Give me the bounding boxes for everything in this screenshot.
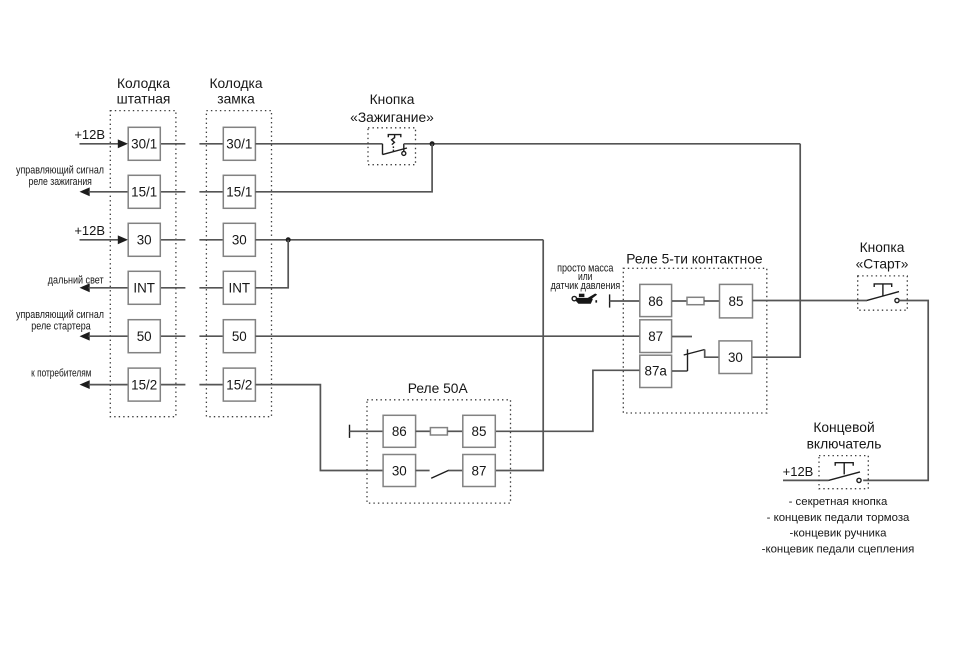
- svg-text:15/1: 15/1: [226, 185, 252, 200]
- +12V feed arrow into 30/1: [80, 139, 129, 148]
- svg-text:87а: 87а: [645, 364, 668, 379]
- relay K2 Реле 50А dashed outline: [367, 400, 511, 503]
- relay K1 Реле 5-ти контактное dashed outline: [623, 268, 767, 413]
- svg-text:87: 87: [648, 329, 663, 344]
- wire start button to end switch: [863, 301, 928, 481]
- wire +12V feed to end switch: [783, 479, 828, 481]
- pin box 86 of K2: [383, 415, 416, 447]
- svg-text:включатель: включатель: [807, 437, 882, 452]
- svg-text:85: 85: [729, 294, 744, 309]
- output arrow from 15/1: [80, 187, 129, 196]
- svg-text:Колодка: Колодка: [117, 76, 170, 91]
- pin box 30/1 lock: [223, 127, 255, 160]
- wire 50 stock to 50 lock: [160, 335, 223, 337]
- svg-text:штатная: штатная: [117, 92, 171, 107]
- connector block Колодка замка dashed outline: [206, 111, 271, 417]
- svg-text:50: 50: [137, 329, 152, 344]
- svg-text:30: 30: [137, 233, 152, 248]
- wire terminal bar to pin 86 of K1: [610, 300, 640, 302]
- pin box 85 of K2: [463, 415, 496, 447]
- start button SB2 contacts: [867, 284, 899, 303]
- output arrow from INT: [80, 283, 129, 292]
- svg-text:15/2: 15/2: [226, 377, 252, 392]
- pin box 50 lock: [223, 320, 255, 353]
- svg-text:30: 30: [392, 463, 407, 478]
- wire pin 85 of Реле 50А up to pin 87a of K1: [495, 370, 639, 431]
- svg-text:датчик давления: датчик давления: [551, 280, 621, 292]
- svg-text:Реле 5-ти контактное: Реле 5-ти контактное: [626, 252, 763, 267]
- open contact stub of pin 87 K1: [672, 336, 692, 338]
- svg-text:к потребителям: к потребителям: [31, 367, 91, 379]
- wire 50 lock to pin 87 of 5-pin relay: [255, 335, 639, 337]
- pin box INT lock: [223, 271, 255, 304]
- svg-text:30/1: 30/1: [131, 137, 157, 152]
- output arrow from 15/2: [80, 380, 129, 389]
- svg-text:-концевик педали сцепления: -концевик педали сцепления: [762, 543, 915, 555]
- output arrow from 50: [80, 332, 129, 341]
- svg-text:«Старт»: «Старт»: [856, 257, 909, 272]
- svg-text:30/1: 30/1: [226, 137, 252, 152]
- title Кнопка «Зажигание»: [350, 92, 434, 125]
- svg-text:15/2: 15/2: [131, 377, 157, 392]
- label просто масса или датчик давления: [551, 262, 621, 292]
- svg-text:30: 30: [232, 233, 247, 248]
- pin box 30/1 stock: [128, 127, 160, 160]
- svg-text:дальний свет: дальний свет: [48, 274, 104, 286]
- wire 15/2 lock to pin 30 of Реле 50А: [255, 385, 383, 471]
- pin box 30 lock: [223, 223, 255, 256]
- note list secret button variants: [762, 496, 915, 555]
- pin box 87a of K1: [640, 355, 672, 387]
- svg-text:Реле 50А: Реле 50А: [408, 381, 469, 396]
- ground terminal bar feeding pin 86 of K2: [349, 425, 351, 438]
- wire node B to INT lock: [255, 240, 288, 288]
- svg-text:INT: INT: [133, 281, 155, 296]
- svg-text:реле зажигания: реле зажигания: [29, 176, 92, 188]
- svg-text:+12В: +12В: [74, 223, 105, 238]
- wire terminal bar to pin 86 of K2: [350, 430, 384, 432]
- end switch SQ1 contacts: [828, 463, 861, 483]
- pin box 30 of K1: [719, 341, 752, 374]
- svg-text:-концевик ручника: -концевик ручника: [790, 528, 888, 540]
- +12V feed arrow into 30: [80, 235, 129, 244]
- svg-text:Концевой: Концевой: [813, 420, 874, 435]
- svg-text:«Зажигание»: «Зажигание»: [350, 110, 434, 125]
- svg-text:+12В: +12В: [783, 464, 814, 479]
- svg-text:Кнопка: Кнопка: [370, 92, 415, 107]
- relay K2 coil resistor: [416, 428, 463, 435]
- wire top bus down to pin 30 of 5-pin relay: [752, 144, 800, 357]
- svg-text:+12В: +12В: [74, 127, 105, 142]
- wire INT stock to INT lock: [160, 287, 223, 289]
- node A junction dot: [430, 141, 435, 146]
- pin box 87 of K2: [463, 455, 496, 487]
- pin box 50 stock: [128, 320, 160, 353]
- wire ignition button to node A and top bus: [404, 143, 800, 145]
- pin box 15/1 stock: [128, 175, 160, 208]
- title Колодка замка: [209, 76, 262, 107]
- pin box 86 of K1: [640, 284, 672, 316]
- svg-text:86: 86: [392, 424, 407, 439]
- svg-text:50: 50: [232, 329, 247, 344]
- svg-text:Колодка: Колодка: [209, 76, 262, 91]
- svg-text:86: 86: [648, 294, 663, 309]
- title Концевой включатель: [807, 420, 882, 452]
- svg-text:87: 87: [472, 463, 487, 478]
- wire 30 stock to 30 lock: [160, 239, 223, 241]
- pin box 30 stock: [128, 223, 160, 256]
- ignition button SB1 contacts: [383, 135, 408, 156]
- svg-text:Кнопка: Кнопка: [860, 240, 905, 255]
- wire 30 lock to vertical drop: [255, 239, 543, 241]
- wire node A down to 15/1 lock: [255, 144, 432, 192]
- label управляющий сигнал реле стартера: [16, 309, 104, 333]
- ground terminal bar feeding pin 86 of K1: [609, 294, 611, 307]
- svg-text:INT: INT: [229, 281, 251, 296]
- wire 30/1 lock to ignition button: [255, 143, 382, 145]
- pin box 87 of K1: [640, 320, 672, 353]
- wire 30/1 stock to 30/1 lock: [160, 143, 223, 145]
- push-button SB2 Кнопка Старт dashed outline: [858, 276, 908, 310]
- wire 30 bus drop to pin 87 of Реле 50А: [495, 240, 543, 471]
- svg-text:85: 85: [472, 424, 487, 439]
- svg-text:реле стартера: реле стартера: [31, 321, 91, 333]
- svg-text:управляющий сигнал: управляющий сигнал: [16, 309, 104, 321]
- svg-text:управляющий сигнал: управляющий сигнал: [16, 164, 104, 176]
- pin box 30 of K2: [383, 455, 416, 487]
- svg-text:замка: замка: [217, 92, 255, 107]
- pin box 85 of K1: [720, 284, 753, 318]
- relay K2 contact 30-87 (open): [416, 470, 463, 478]
- relay K1 coil resistor: [672, 297, 720, 304]
- svg-text:- секретная кнопка: - секретная кнопка: [789, 496, 888, 508]
- wire 15/1 stock to 15/1 lock: [160, 191, 223, 193]
- title Кнопка «Старт»: [856, 240, 909, 271]
- pin box 15/2 stock: [128, 368, 160, 401]
- relay K1 moving contact 87a-30: [672, 349, 719, 371]
- node B junction dot on 30 bus: [286, 237, 291, 242]
- oil pressure sensor icon: [572, 294, 597, 304]
- wire pin 85 of K1 to start button: [753, 300, 868, 302]
- svg-text:- концевик педали тормоза: - концевик педали тормоза: [767, 512, 910, 524]
- pin box 15/1 lock: [223, 175, 255, 208]
- connector block Колодка штатная dashed outline: [110, 111, 176, 417]
- push-button SB1 Кнопка Зажигание dashed outline: [368, 128, 416, 165]
- wire 15/2 stock to 15/2 lock: [160, 384, 223, 386]
- pin box INT stock: [128, 271, 160, 304]
- limit switch SQ1 Концевой включатель dashed outline: [819, 456, 868, 489]
- title Колодка штатная: [117, 76, 171, 107]
- svg-text:30: 30: [728, 350, 743, 365]
- svg-text:15/1: 15/1: [131, 185, 157, 200]
- label управляющий сигнал реле зажигания: [16, 164, 104, 188]
- pin box 15/2 lock: [223, 368, 255, 401]
